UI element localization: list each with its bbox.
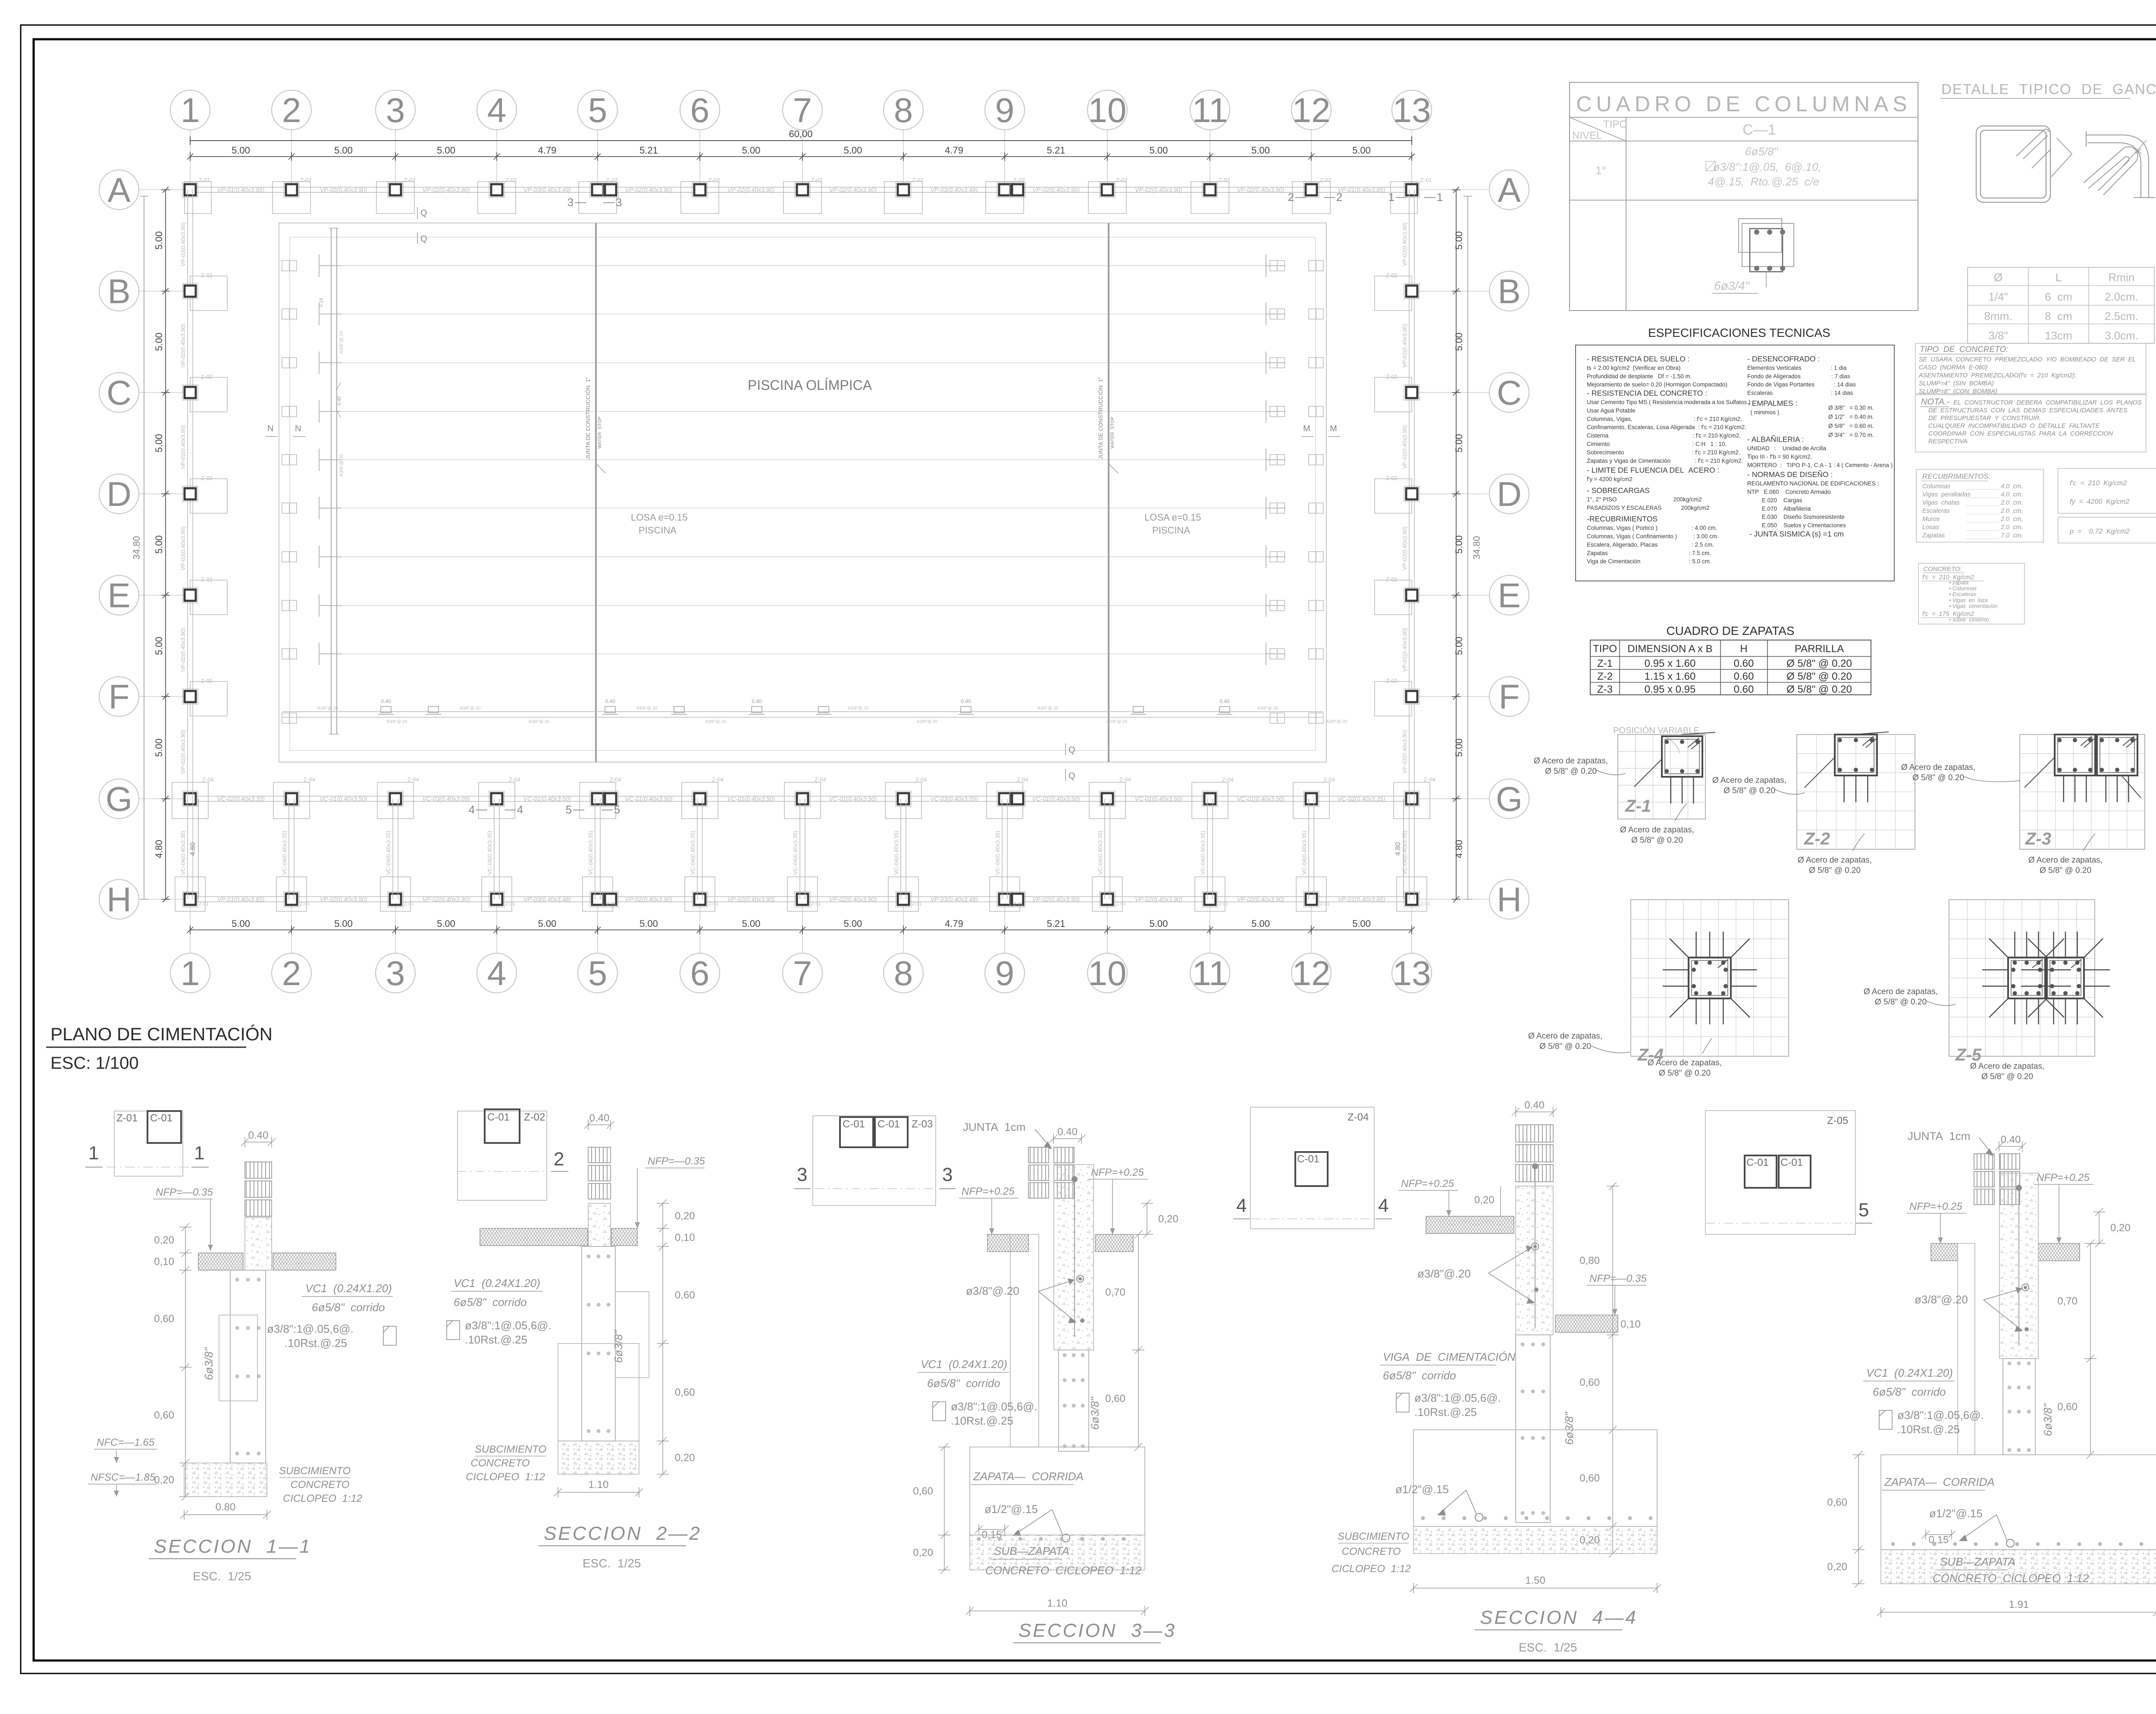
- svg-text:- EMPALMES :: - EMPALMES :: [1747, 399, 1797, 408]
- svg-text:CICLOPEO 1:12: CICLOPEO 1:12: [1332, 1563, 1411, 1575]
- svg-text:VP-02(0.40x3.90): VP-02(0.40x3.90): [180, 223, 186, 267]
- svg-text:6: 6: [690, 91, 710, 129]
- svg-text:13cm: 13cm: [2045, 329, 2072, 342]
- svg-text:VP-02(0.40x3.90): VP-02(0.40x3.90): [1401, 527, 1408, 571]
- svg-text:Z-04: Z-04: [509, 776, 520, 783]
- svg-text:Z-04: Z-04: [1222, 776, 1234, 783]
- svg-text:5.00: 5.00: [232, 918, 250, 929]
- svg-text:1: 1: [1388, 191, 1395, 204]
- svg-text:D: D: [1497, 475, 1522, 513]
- svg-text:Z-1: Z-1: [1625, 797, 1651, 816]
- svg-text:SUBCIMIENTO: SUBCIMIENTO: [1338, 1531, 1409, 1542]
- svg-text:ESC: 1/100: ESC: 1/100: [50, 1054, 139, 1073]
- svg-text:4@.15, Rto.@.25 c/e: 4@.15, Rto.@.25 c/e: [1708, 175, 1819, 188]
- svg-text:5: 5: [614, 803, 620, 816]
- svg-text:Z-01: Z-01: [1420, 177, 1432, 183]
- svg-text:Q: Q: [1069, 771, 1075, 781]
- svg-text:2.0 cm.: 2.0 cm.: [2000, 499, 2023, 506]
- svg-text:Z-01: Z-01: [1320, 901, 1330, 907]
- svg-text:Z-02: Z-02: [912, 177, 924, 183]
- svg-text:34.80: 34.80: [131, 536, 142, 559]
- svg-text:Ø 5/8" @ 0.20: Ø 5/8" @ 0.20: [1912, 773, 1964, 782]
- svg-text:5: 5: [566, 803, 572, 816]
- svg-text:Z-02: Z-02: [300, 177, 312, 183]
- svg-text:2.5cm.: 2.5cm.: [2105, 310, 2138, 323]
- svg-text:0,60: 0,60: [1579, 1377, 1600, 1388]
- svg-text:ø1/2"@.15: ø1/2"@.15: [1395, 1483, 1449, 1496]
- svg-text:8: 8: [894, 954, 913, 992]
- svg-text:A3/8"@.20: A3/8"@.20: [529, 719, 550, 724]
- svg-text:0,60: 0,60: [154, 1313, 174, 1325]
- svg-text:Z-01: Z-01: [404, 901, 414, 907]
- svg-text:4: 4: [487, 91, 507, 129]
- svg-text:ø3/8"@.20: ø3/8"@.20: [1915, 1293, 1968, 1306]
- svg-text:VC1 (0.24X1.20): VC1 (0.24X1.20): [1866, 1366, 1953, 1379]
- svg-text:Z-04: Z-04: [815, 776, 826, 783]
- svg-text:PLANO DE CIMENTACIÓN: PLANO DE CIMENTACIÓN: [50, 1024, 273, 1044]
- svg-text:0,60: 0,60: [1827, 1497, 1847, 1508]
- svg-text:VP-02(0.40x3.90): VP-02(0.40x3.90): [1237, 186, 1285, 193]
- svg-text:VC-04(0.40x3.35): VC-04(0.40x3.35): [1301, 831, 1307, 875]
- svg-text:Ø 5/8" @ 0.20: Ø 5/8" @ 0.20: [1539, 1042, 1591, 1051]
- svg-text:6: 6: [690, 954, 710, 992]
- svg-text:0,20: 0,20: [154, 1474, 174, 1486]
- svg-text:VC-01(0.40x3.50): VC-01(0.40x3.50): [1237, 795, 1285, 802]
- seccion 5 keyplan: [1705, 1111, 1872, 1234]
- svg-text:Ø Acero de zapatas,: Ø Acero de zapatas,: [1712, 776, 1786, 785]
- svg-text:VC-04(0.40x3.35): VC-04(0.40x3.35): [281, 831, 288, 875]
- svg-text:TIPO DE CONCRETO:: TIPO DE CONCRETO:: [1920, 345, 2009, 354]
- svg-text:6ø5/8": 6ø5/8": [1745, 145, 1778, 158]
- wall squares right: [1270, 261, 1323, 723]
- svg-text:12: 12: [1292, 954, 1331, 992]
- svg-text:Escalera, Aligerado, Placas: Escalera, Aligerado, Placas : 2.5 cm.: [1587, 541, 1714, 548]
- svg-text:Ø Acero de zapatas,: Ø Acero de zapatas,: [1528, 1032, 1602, 1041]
- svg-text:3: 3: [942, 1164, 953, 1185]
- svg-text:0.95 x 0.95: 0.95 x 0.95: [1645, 684, 1696, 695]
- svg-text:Z-02: Z-02: [606, 177, 618, 183]
- svg-text:4.80: 4.80: [154, 840, 164, 858]
- svg-text:LOSA e=0.15: LOSA e=0.15: [631, 512, 688, 523]
- svg-text:E: E: [1498, 576, 1520, 615]
- svg-text:JUNTA 1cm: JUNTA 1cm: [963, 1121, 1025, 1133]
- svg-text:- DESENCOFRADO :: - DESENCOFRADO :: [1747, 355, 1820, 363]
- svg-text:1.91: 1.91: [2009, 1599, 2029, 1610]
- svg-text:0.40: 0.40: [2001, 1134, 2021, 1146]
- svg-text:VP-03(0.40x3.48): VP-03(0.40x3.48): [931, 896, 978, 903]
- svg-text:Z-04: Z-04: [610, 776, 621, 783]
- svg-text:C-01: C-01: [1780, 1157, 1803, 1168]
- svg-text:Z-04: Z-04: [1119, 776, 1131, 783]
- svg-text:VP-03(0.40x3.49): VP-03(0.40x3.49): [523, 186, 571, 193]
- svg-text:A3/8"@.20: A3/8"@.20: [1257, 706, 1279, 711]
- svg-text:0,10: 0,10: [675, 1232, 695, 1243]
- svg-text:Z-04: Z-04: [407, 776, 419, 783]
- svg-text:PISCINA OLÍMPICA: PISCINA OLÍMPICA: [748, 377, 872, 393]
- svg-text:Z-01: Z-01: [811, 901, 821, 907]
- svg-text:4.79: 4.79: [945, 918, 963, 929]
- svg-text:VP-02(0.40x3.90): VP-02(0.40x3.90): [727, 896, 775, 903]
- lane end tees left: [319, 254, 341, 665]
- svg-text:5.00: 5.00: [742, 918, 761, 929]
- svg-text:F: F: [1499, 678, 1520, 716]
- svg-text:4.80: 4.80: [1395, 842, 1402, 856]
- svg-text:VP-02(0.40x3.90): VP-02(0.40x3.90): [1401, 223, 1408, 267]
- svg-text:0.40: 0.40: [381, 698, 391, 704]
- svg-text:5.00: 5.00: [1454, 535, 1464, 554]
- svg-text:2.0 cm.: 2.0 cm.: [2000, 516, 2023, 523]
- svg-text:CONCRETO: CONCRETO: [471, 1457, 530, 1469]
- row H zapatas and columns: [175, 877, 1430, 911]
- svg-text:• Escaleras: • Escaleras: [1949, 591, 1976, 597]
- svg-text:Sobrecimiento: Sobrecimiento : f'c = 210 Kg/cm2.: [1587, 449, 1740, 455]
- svg-text:Z-01: Z-01: [708, 901, 718, 907]
- svg-text:M: M: [1330, 424, 1337, 433]
- svg-text:PISCINA: PISCINA: [1152, 525, 1190, 536]
- svg-text:VP-02(0.40x3.90): VP-02(0.40x3.90): [180, 730, 186, 774]
- p box: [2058, 517, 2156, 543]
- zapata detail Z-2: [1712, 732, 1915, 875]
- svg-text:Usar Agua Potable: Usar Agua Potable: [1587, 407, 1636, 414]
- svg-text:Ø 1/2" = 0.40 m.: Ø 1/2" = 0.40 m.: [1828, 414, 1874, 420]
- svg-text:SUBCIMIENTO: SUBCIMIENTO: [279, 1465, 351, 1477]
- svg-text:SE USARA CONCRETO PREMEZCLA: SE USARA CONCRETO PREMEZCLADO Y/O BOMBEA…: [1919, 356, 2136, 363]
- svg-text:A3/8"@.20: A3/8"@.20: [1037, 706, 1059, 711]
- svg-text:E: E: [107, 576, 130, 615]
- svg-text:Z-04: Z-04: [712, 776, 724, 783]
- svg-text:f'y = 4200 kg/cm2: f'y = 4200 kg/cm2: [1587, 476, 1633, 483]
- svg-text:VC1 (0.24X1.20): VC1 (0.24X1.20): [454, 1277, 540, 1290]
- svg-text:5.21: 5.21: [639, 145, 658, 156]
- svg-text:5.00: 5.00: [538, 918, 557, 929]
- lane end tees right: [1266, 254, 1285, 665]
- svg-text:Profundidad de desplante Df: Profundidad de desplante Df = -1.50 m.: [1587, 373, 1692, 380]
- svg-text:VP-03(0.40x3.48): VP-03(0.40x3.48): [523, 896, 571, 903]
- seccion 4-4 drawing: [1332, 1099, 1661, 1654]
- svg-text:0,60: 0,60: [675, 1290, 695, 1301]
- svg-text:VC-04(0.40x3.35): VC-04(0.40x3.35): [486, 831, 493, 875]
- svg-text:6ø3/8": 6ø3/8": [1088, 1397, 1101, 1430]
- svg-text:Ø 5/8" @ 0.20: Ø 5/8" @ 0.20: [1809, 866, 1861, 875]
- svg-text:7.0 cm.: 7.0 cm.: [2001, 532, 2023, 539]
- svg-text:PISCINA: PISCINA: [639, 525, 677, 536]
- svg-text:Z-02: Z-02: [505, 177, 517, 183]
- svg-text:ESC. 1/25: ESC. 1/25: [1519, 1641, 1577, 1654]
- svg-text:CONCRETO CICLOPEO 1:12: CONCRETO CICLOPEO 1:12: [985, 1564, 1142, 1577]
- svg-text:5.00: 5.00: [154, 738, 164, 757]
- svg-text:Q: Q: [420, 208, 427, 218]
- row grid bubbles right: [1489, 170, 1529, 210]
- svg-text:C-01: C-01: [487, 1111, 510, 1123]
- svg-text:p = 0.72 Kg/cm2: p = 0.72 Kg/cm2: [2069, 528, 2130, 535]
- svg-text:Ø Acero de zapatas,: Ø Acero de zapatas,: [1648, 1058, 1722, 1067]
- svg-text:5.00: 5.00: [844, 145, 862, 156]
- svg-text:5.00: 5.00: [232, 145, 250, 156]
- svg-text:Z-02: Z-02: [1386, 678, 1398, 684]
- svg-text:2: 2: [554, 1149, 564, 1170]
- pool left wall line: [331, 228, 332, 734]
- svg-text:SECCION 1—1: SECCION 1—1: [154, 1536, 312, 1557]
- svg-text:VC-04(0.40x3.35): VC-04(0.40x3.35): [994, 831, 1001, 875]
- svg-text:VC-04(0.40x3.35): VC-04(0.40x3.35): [1097, 831, 1103, 875]
- svg-text:5.00: 5.00: [1352, 918, 1371, 929]
- svg-text:CUALQUIER INCOMPATIBILIDAD O: CUALQUIER INCOMPATIBILIDAD O DETALLE FAL…: [1928, 423, 2100, 430]
- svg-text:A3/8"@.20: A3/8"@.20: [460, 706, 481, 711]
- svg-text:Ø 5/8" @ 0.20: Ø 5/8" @ 0.20: [2040, 866, 2091, 875]
- svg-text:VP-02(0.40x3.90): VP-02(0.40x3.90): [1032, 186, 1080, 193]
- grid 1 zapatas/columns: [182, 272, 227, 716]
- svg-text:SUB—ZAPATA: SUB—ZAPATA: [994, 1544, 1069, 1557]
- svg-text:1.15 x 1.60: 1.15 x 1.60: [1645, 671, 1696, 682]
- svg-text:0.40: 0.40: [589, 1112, 610, 1124]
- svg-text:VP-02(0.40x3.90): VP-02(0.40x3.90): [829, 896, 877, 903]
- section mark 2-2 top: [1295, 197, 1335, 198]
- svg-text:VC-04(0.40x3.35): VC-04(0.40x3.35): [792, 831, 799, 875]
- svg-text:E.070 Albañileria: E.070 Albañileria: [1747, 505, 1811, 512]
- svg-text:CONCRETO CICLOPEO 1:12: CONCRETO CICLOPEO 1:12: [1933, 1572, 2089, 1585]
- svg-text:A: A: [107, 171, 131, 209]
- svg-text:4: 4: [517, 803, 523, 816]
- svg-text:Losas: Losas: [1922, 524, 1939, 531]
- svg-text:0,15: 0,15: [1929, 1534, 1949, 1546]
- svg-text:D: D: [107, 475, 132, 513]
- svg-text:DE ESTRUCTURAS CON LAS DEM: DE ESTRUCTURAS CON LAS DEMAS ESPECIALIDA…: [1928, 407, 2128, 414]
- svg-text:Z-03: Z-03: [912, 1118, 933, 1130]
- svg-text:Escaleras: Escaleras: [1922, 508, 1950, 515]
- svg-text:VP-02(0.40x3.90): VP-02(0.40x3.90): [727, 186, 775, 193]
- svg-text:13: 13: [1393, 91, 1431, 129]
- svg-text:Ø Acero de zapatas,: Ø Acero de zapatas,: [1970, 1062, 2044, 1071]
- svg-text:fy = 4200 Kg/cm2: fy = 4200 Kg/cm2: [2070, 498, 2129, 505]
- left bay dimensions: [161, 187, 170, 902]
- svg-text:5.00: 5.00: [1251, 918, 1270, 929]
- svg-text:VC-03(0.40x3.09): VC-03(0.40x3.09): [930, 795, 978, 802]
- svg-text:Muros: Muros: [1922, 516, 1940, 523]
- svg-text:Fondo de Aligerados: Fondo de Aligerados : 7 dias: [1747, 373, 1850, 380]
- grid 13 zapatas/columns: [1375, 272, 1420, 716]
- seccion 1-1 keyplan: [85, 1111, 209, 1176]
- svg-text:Z-01: Z-01: [1116, 901, 1126, 907]
- svg-text:NFP=+0.25: NFP=+0.25: [1091, 1167, 1144, 1178]
- svg-text:C—1: C—1: [1742, 122, 1776, 138]
- svg-text:2.0 cm.: 2.0 cm.: [2000, 508, 2023, 515]
- svg-text:A3/8"@.20: A3/8"@.20: [917, 719, 938, 724]
- zapata detail Z-4: [1528, 900, 1789, 1078]
- svg-text:13: 13: [1393, 954, 1431, 992]
- svg-text:0.60: 0.60: [1734, 658, 1754, 669]
- svg-text:ø3/8":1@.05,6@.: ø3/8":1@.05,6@.: [951, 1400, 1037, 1413]
- svg-text:Z-01: Z-01: [606, 901, 616, 907]
- svg-text:3/8": 3/8": [1988, 329, 2008, 342]
- svg-text:0.40: 0.40: [961, 698, 971, 704]
- svg-text:DE PRESUPUESTAR Y CONSTRUIR: DE PRESUPUESTAR Y CONSTRUIR.: [1928, 415, 2041, 422]
- svg-text:VC-01(0.40x3.50): VC-01(0.40x3.50): [829, 795, 877, 802]
- svg-text:5.00: 5.00: [437, 918, 455, 929]
- svg-text:A3/8"@.20: A3/8"@.20: [339, 454, 344, 477]
- svg-text:5.00: 5.00: [1150, 145, 1168, 156]
- stirrup square detail: [1976, 126, 2072, 202]
- svg-text:Z-3: Z-3: [2025, 829, 2051, 848]
- svg-text:Ø Acero de zapatas,: Ø Acero de zapatas,: [1901, 763, 1975, 772]
- svg-text:5.21: 5.21: [1047, 145, 1065, 156]
- svg-text:SECCION 2—2: SECCION 2—2: [544, 1523, 702, 1544]
- svg-text:JUNTA DE CONSTRUCCIÓN 1": JUNTA DE CONSTRUCCIÓN 1": [1097, 377, 1104, 459]
- svg-text:VP-02(0.40x3.90): VP-02(0.40x3.90): [180, 527, 186, 571]
- svg-text:VC-04(0.40x3.35): VC-04(0.40x3.35): [385, 831, 392, 875]
- svg-text:ZAPATA— CORRIDA: ZAPATA— CORRIDA: [1884, 1475, 1995, 1488]
- svg-text:Z-04: Z-04: [304, 776, 315, 783]
- svg-text:• sobre cimiento: • sobre cimiento: [1949, 617, 1989, 623]
- row A perimeter beam: [190, 187, 1412, 188]
- svg-text:1: 1: [181, 954, 200, 992]
- svg-text:Ø Acero de zapatas,: Ø Acero de zapatas,: [1798, 856, 1872, 865]
- grid 1 wall beam: [187, 190, 188, 799]
- bottom bay dimensions: [187, 926, 1415, 934]
- svg-text:ø3/8":1@.05,6@.: ø3/8":1@.05,6@.: [1414, 1391, 1501, 1404]
- svg-text:• Vigas en loza: • Vigas en loza: [1949, 597, 1988, 603]
- svg-text:8mm.: 8mm.: [1984, 310, 2012, 323]
- svg-text:A3/8"@.20: A3/8"@.20: [705, 719, 727, 724]
- svg-text:Z-02: Z-02: [1116, 177, 1128, 183]
- svg-text:Columnas: Columnas: [1922, 483, 1950, 490]
- svg-text:Z-04: Z-04: [1323, 776, 1335, 783]
- svg-text:Zapatas: Zapatas : 7.5 cm.: [1587, 550, 1711, 556]
- svg-text:VC-03(0.40x3.09): VC-03(0.40x3.09): [422, 795, 470, 802]
- svg-text:Z-02: Z-02: [524, 1111, 545, 1123]
- svg-text:NIVEL: NIVEL: [1572, 130, 1602, 141]
- svg-text:Cimiento: Cimiento : C:H 1 : 10.: [1587, 441, 1727, 447]
- svg-text:0,70: 0,70: [1105, 1287, 1125, 1298]
- svg-text:Columnas, Vigas,: Columnas, Vigas, : f'c = 210 Kg/cm2.: [1587, 416, 1742, 422]
- svg-text:H: H: [107, 880, 132, 919]
- svg-text:4: 4: [1236, 1195, 1247, 1216]
- svg-text:4.80: 4.80: [1454, 840, 1464, 858]
- svg-text:Z-02: Z-02: [201, 678, 213, 684]
- svg-text:VC1 (0.24X1.20): VC1 (0.24X1.20): [921, 1358, 1007, 1371]
- svg-text:MORTERO : TIPO P-1, C:A - 1: MORTERO : TIPO P-1, C:A - 1 : 4 ( Cement…: [1747, 462, 1893, 468]
- svg-text:VC-02(0.40x3.35): VC-02(0.40x3.35): [1338, 795, 1385, 802]
- svg-text:Z-01: Z-01: [116, 1112, 138, 1124]
- cuadro de columnas table: [1570, 82, 1918, 311]
- zapata detail Z-5: [1864, 900, 2110, 1081]
- svg-text:8: 8: [894, 91, 913, 129]
- svg-text:34.80: 34.80: [1471, 536, 1482, 559]
- svg-text:SUBCIMIENTO: SUBCIMIENTO: [475, 1444, 546, 1455]
- svg-text:5: 5: [588, 91, 608, 129]
- svg-text:VP-02(0.40x3.90): VP-02(0.40x3.90): [1237, 896, 1285, 903]
- svg-text:VP-02(0.40x3.90): VP-02(0.40x3.90): [1135, 186, 1182, 193]
- svg-text:Z-3: Z-3: [1597, 684, 1613, 695]
- svg-text:5.00: 5.00: [437, 145, 455, 156]
- svg-text:0.40: 0.40: [1057, 1126, 1078, 1138]
- svg-text:B: B: [1498, 272, 1520, 311]
- svg-text:Rmin: Rmin: [2109, 271, 2135, 284]
- svg-text:Z-04: Z-04: [915, 776, 927, 783]
- svg-text:- NORMAS DE DISEÑO :: - NORMAS DE DISEÑO :: [1747, 470, 1833, 479]
- svg-text:VP-02(0.40x3.90): VP-02(0.40x3.90): [180, 628, 186, 672]
- svg-text:WATER STOP: WATER STOP: [1110, 417, 1115, 449]
- svg-text:VP-01(0.40x3.85): VP-01(0.40x3.85): [217, 186, 265, 193]
- svg-text:A3/8"@.20: A3/8"@.20: [317, 706, 338, 711]
- svg-text:VP-03(0.40x3.49): VP-03(0.40x3.49): [931, 186, 978, 193]
- svg-text:Ø 5/8" @ 0.20: Ø 5/8" @ 0.20: [1786, 684, 1852, 695]
- svg-text:VC-04(0.40x3.35): VC-04(0.40x3.35): [1401, 831, 1408, 875]
- svg-text:Elementos Verticales: Elementos Verticales : 1 dia: [1747, 364, 1847, 371]
- svg-text:5.00: 5.00: [154, 231, 164, 250]
- svg-text:3: 3: [386, 954, 405, 992]
- svg-text:0,20: 0,20: [1827, 1561, 1847, 1573]
- svg-text:VP-02(0.40x3.90): VP-02(0.40x3.90): [1401, 324, 1408, 368]
- svg-text:5.00: 5.00: [1251, 145, 1270, 156]
- svg-text:LOSA e=0.15: LOSA e=0.15: [1144, 512, 1201, 523]
- svg-text:Columnas, Vigas ( Portico ): Columnas, Vigas ( Portico ) : 4.00 cm.: [1587, 525, 1717, 531]
- seccion 5 drawing: [1827, 1130, 2156, 1617]
- svg-text:N: N: [295, 424, 301, 433]
- right bay dimensions: [1452, 187, 1460, 902]
- svg-text:5.00: 5.00: [334, 145, 353, 156]
- svg-text:Z-02: Z-02: [201, 576, 213, 583]
- seccion 2-2 keyplan: [457, 1109, 568, 1200]
- svg-text:VC-01(0.40x3.50): VC-01(0.40x3.50): [523, 795, 571, 802]
- svg-text:VP-02(0.40x3.90): VP-02(0.40x3.90): [1401, 628, 1408, 672]
- svg-text:VP-02(0.40x3.90): VP-02(0.40x3.90): [829, 186, 877, 193]
- svg-text:VP-02(0.40x3.90): VP-02(0.40x3.90): [423, 186, 470, 193]
- svg-text:NFC=—1.65: NFC=—1.65: [97, 1437, 155, 1448]
- svg-text:Ø 5/8" @ 0.20: Ø 5/8" @ 0.20: [1659, 1069, 1711, 1078]
- svg-text:VC-01(0.40x3.50): VC-01(0.40x3.50): [1032, 795, 1080, 802]
- svg-text:M: M: [1303, 424, 1310, 433]
- svg-text:0,20: 0,20: [154, 1234, 174, 1246]
- seccion 3-3 drawing: [913, 1121, 1178, 1643]
- svg-text:0,60: 0,60: [913, 1485, 933, 1497]
- svg-text:VP-01(0.40x3.85): VP-01(0.40x3.85): [1338, 186, 1385, 193]
- svg-text:A3/8"@.20: A3/8"@.20: [386, 719, 407, 724]
- svg-text:0,20: 0,20: [1474, 1194, 1495, 1206]
- svg-text:0,20: 0,20: [2110, 1222, 2131, 1234]
- svg-text:ASENTAMIENTO PREMEZCLADO(f'c: ASENTAMIENTO PREMEZCLADO(f'c = 210 Kg/cm…: [1918, 372, 2076, 379]
- svg-text:5.00: 5.00: [1454, 231, 1464, 250]
- construction joint 1: [595, 223, 597, 762]
- svg-text:5.00: 5.00: [1150, 918, 1168, 929]
- svg-text:Z-2: Z-2: [1597, 671, 1613, 682]
- svg-text:NFP=—0.35: NFP=—0.35: [648, 1155, 705, 1167]
- svg-text:ø3/8":1@.05,6@.: ø3/8":1@.05,6@.: [1897, 1409, 1984, 1422]
- svg-text:- ALBAÑILERIA :: - ALBAÑILERIA :: [1747, 435, 1804, 444]
- svg-text:RESPECTIVA: RESPECTIVA: [1928, 438, 1968, 445]
- svg-text:Vigas chatas: Vigas chatas: [1922, 499, 1960, 506]
- svg-text:1/4": 1/4": [1988, 290, 2008, 303]
- svg-text:SECCION 4—4: SECCION 4—4: [1480, 1607, 1638, 1628]
- svg-text:C-01: C-01: [1746, 1157, 1769, 1168]
- svg-text:N: N: [267, 424, 273, 433]
- svg-text:6ø3/8": 6ø3/8": [1563, 1412, 1576, 1445]
- svg-text:VC-04(0.40x3.35): VC-04(0.40x3.35): [689, 831, 696, 875]
- svg-text:JUNTA 1cm: JUNTA 1cm: [1908, 1130, 1970, 1143]
- svg-text:- LIMITE DE FLUENCIA DEL ACER: - LIMITE DE FLUENCIA DEL ACERO :: [1587, 466, 1719, 474]
- svg-text:ø1/2"@.15: ø1/2"@.15: [984, 1503, 1038, 1516]
- svg-text:VC1 (0.24X1.20): VC1 (0.24X1.20): [305, 1282, 392, 1295]
- svg-text:Z-01: Z-01: [199, 177, 210, 183]
- svg-text:B: B: [107, 272, 130, 311]
- svg-text:0,60: 0,60: [1579, 1472, 1600, 1484]
- svg-text:4.79: 4.79: [538, 145, 557, 156]
- svg-text:SECCION 3—3: SECCION 3—3: [1018, 1620, 1176, 1641]
- tipo de concreto box: [1915, 343, 2146, 394]
- svg-text:6ø5/8" corrido: 6ø5/8" corrido: [1383, 1369, 1456, 1382]
- svg-text:0,10: 0,10: [1620, 1318, 1641, 1330]
- svg-text:CICLOPEO 1:12: CICLOPEO 1:12: [283, 1493, 362, 1504]
- svg-text:Z-02: Z-02: [708, 177, 720, 183]
